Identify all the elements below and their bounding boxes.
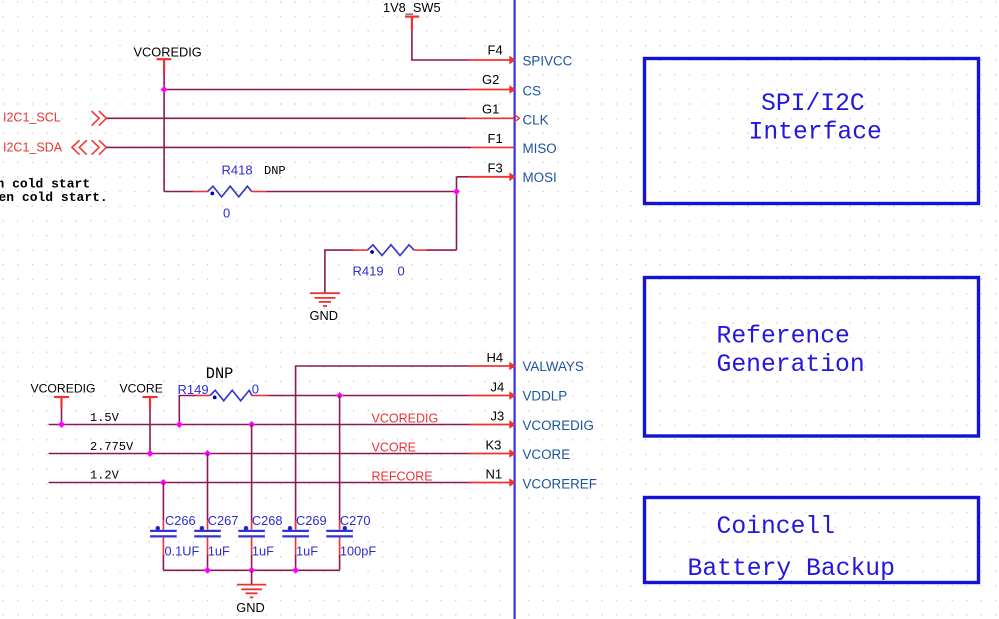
svg-text:VCOREDIG: VCOREDIG [134, 45, 202, 60]
junction bus / C269 [292, 567, 299, 574]
pin F1 red stub [471, 146, 514, 148]
wire ground bus [163, 569, 339, 571]
wire G2 row [164, 89, 468, 91]
svg-text:VDDLP: VDDLP [523, 389, 568, 404]
svg-text:VCORE: VCORE [372, 441, 416, 455]
svg-text:1uF: 1uF [296, 543, 318, 558]
function box Reference Generation [645, 278, 979, 437]
svg-text:Battery Backup: Battery Backup [688, 555, 895, 583]
junction MOSI node [453, 188, 460, 195]
svg-text:K3: K3 [486, 437, 502, 452]
pin J3 red stub [469, 424, 511, 426]
resistor R149 right pin [252, 395, 268, 397]
capacitor C266 [150, 520, 177, 555]
svg-text:R418: R418 [222, 163, 253, 178]
svg-text:C269: C269 [296, 513, 327, 528]
svg-text:C266: C266 [165, 513, 196, 528]
ground symbol GND (bottom) [237, 585, 266, 598]
wire R419 left to GND corner [325, 250, 353, 292]
wire G1 row [106, 117, 466, 119]
svg-text:GND: GND [236, 600, 264, 615]
svg-text:F1: F1 [488, 131, 503, 146]
pin K3 red stub [469, 453, 511, 455]
junction K3 / C267 [204, 450, 211, 457]
wire F3 row [457, 176, 469, 178]
svg-text:VCOREDIG: VCOREDIG [31, 382, 96, 396]
pin F3 arrow [509, 173, 516, 182]
junction J3 / R149 [176, 421, 183, 428]
wire C266 top lead [162, 483, 164, 521]
svg-text:1V8_SW5: 1V8_SW5 [383, 0, 441, 15]
svg-text:MOSI: MOSI [523, 170, 557, 185]
wire R418 to MOSI node [266, 191, 456, 193]
wire R419 to MOSI vertical [427, 249, 457, 251]
function box Coincell Battery Backup [645, 498, 979, 583]
capacitor C269 [282, 520, 309, 555]
svg-text:N1: N1 [486, 466, 503, 481]
resistor R418 body [208, 186, 252, 197]
svg-text:I2C1_SDA: I2C1_SDA [3, 140, 63, 154]
junction N1 / C266 [160, 479, 167, 486]
function box SPI/I2C Interface [645, 59, 979, 204]
pin F4 arrow [509, 56, 516, 65]
ground symbol GND (R419) [310, 293, 340, 306]
wire J4 row [268, 395, 469, 397]
svg-text:VALWAYS: VALWAYS [523, 359, 584, 374]
svg-text:2.775V: 2.775V [90, 440, 134, 454]
pin G2 red stub [468, 89, 511, 91]
svg-text:GND: GND [310, 308, 338, 323]
capacitor C267 [194, 520, 221, 555]
svg-text:Reference: Reference [717, 322, 850, 350]
wire C268 top lead [251, 425, 253, 521]
svg-text:J4: J4 [491, 379, 505, 394]
resistor R418 right pin [252, 191, 266, 193]
wire C270 top lead [339, 396, 341, 521]
svg-text:en cold start.: en cold start. [0, 190, 108, 205]
svg-text:R419: R419 [353, 264, 384, 279]
svg-text:1uF: 1uF [208, 543, 230, 558]
resistor R419 left pin [353, 249, 367, 251]
svg-text:1uF: 1uF [252, 543, 274, 558]
wire C268 bottom lead [251, 555, 253, 570]
resistor R149 pin1 dot [213, 396, 217, 400]
svg-text:0.1UF: 0.1UF [165, 543, 200, 558]
pin J3 arrow [509, 420, 516, 429]
power symbol 1V8_SW5 [405, 17, 419, 31]
svg-text:VCOREREF: VCOREREF [523, 477, 597, 492]
svg-text:I2C1_SCL: I2C1_SCL [3, 110, 61, 124]
resistor R419 body [367, 245, 414, 256]
svg-text:G1: G1 [482, 102, 499, 117]
svg-text:C268: C268 [252, 513, 283, 528]
sheet boundary vertical bus line [513, 0, 515, 619]
off-page connector chevrons I2C1_SDA [72, 140, 106, 155]
pin G2 arrow [509, 85, 516, 94]
resistor R419 pin1 dot [370, 250, 374, 254]
svg-text:VCORE: VCORE [120, 382, 163, 396]
svg-text:F3: F3 [488, 160, 503, 175]
svg-text:REFCORE: REFCORE [372, 470, 433, 484]
comment text cold start [0, 177, 108, 206]
wire H4 row [296, 366, 469, 530]
wire VCOREDIG corner to R418 [164, 191, 193, 193]
pin J4 arrow [509, 391, 516, 400]
svg-text:C270: C270 [340, 513, 371, 528]
resistor R149 left pin [196, 395, 210, 397]
svg-text:CS: CS [523, 83, 542, 98]
power symbol VCOREDIG (top) [157, 59, 172, 74]
wire C270 bottom lead [339, 555, 341, 570]
wire GND stem (bottom) [251, 570, 253, 584]
junction at VCOREDIG / CS wire [161, 86, 168, 93]
pin H4 arrow [509, 362, 516, 371]
wire VCORE power to K3 row [149, 408, 151, 454]
pin G1 red stub [466, 117, 514, 119]
svg-text:MISO: MISO [523, 141, 557, 156]
svg-text:100pF: 100pF [340, 543, 376, 558]
power symbol VCORE (bottom) [143, 397, 158, 408]
pin N1 arrow [509, 478, 516, 487]
svg-text:1.5V: 1.5V [90, 411, 120, 425]
svg-text:Generation: Generation [717, 351, 865, 379]
wire C267 bottom lead [207, 555, 209, 570]
wire C266 bottom lead [162, 555, 164, 570]
svg-text:G2: G2 [482, 72, 499, 87]
power symbol VCOREDIG (bottom) [54, 397, 69, 408]
svg-text:0: 0 [398, 264, 405, 279]
svg-text:SPI/I2C: SPI/I2C [761, 90, 865, 118]
svg-text:SPIVCC: SPIVCC [523, 53, 573, 68]
svg-text:1.2V: 1.2V [90, 469, 120, 483]
wire R149 left corner to J3 row [179, 396, 196, 425]
junction bus / C267 [204, 567, 211, 574]
pin G1 open arrow [513, 114, 519, 122]
pin F3 red stub [468, 176, 511, 178]
wire VCOREDIG power to J3 row [61, 408, 63, 425]
capacitor C268 [238, 520, 265, 555]
svg-text:Coincell: Coincell [717, 513, 836, 541]
svg-text:VCORE: VCORE [523, 447, 571, 462]
wire 1V8_SW5 to pin F4 [412, 30, 468, 60]
resistor R418 pin1 dot [210, 192, 214, 196]
wire N1 row [49, 482, 469, 484]
junction J3 / C268 [248, 421, 255, 428]
svg-text:VCOREDIG: VCOREDIG [372, 412, 439, 426]
pin K3 arrow [509, 449, 516, 458]
svg-text:J3: J3 [491, 408, 505, 423]
svg-text:0: 0 [223, 205, 230, 220]
wire C267 top lead [207, 454, 209, 521]
svg-text:H4: H4 [487, 350, 504, 365]
wire C269 bottom lead [295, 555, 297, 570]
resistor R418 left pin [193, 191, 207, 193]
svg-text:CLK: CLK [523, 112, 549, 127]
capacitor C270 [326, 520, 353, 555]
wire MOSI vertical [456, 177, 458, 250]
svg-text:0: 0 [252, 381, 259, 396]
pin J4 red stub [469, 395, 511, 397]
junction bus / C268 [248, 567, 255, 574]
svg-text:DNP: DNP [264, 164, 286, 178]
svg-text:F4: F4 [488, 43, 503, 58]
pin N1 red stub [469, 482, 511, 484]
junction J3 / VCOREDIG power [58, 421, 65, 428]
resistor R419 right pin [414, 249, 427, 251]
pin H4 red stub [469, 365, 511, 367]
junction J4 / C270 [336, 392, 343, 399]
wire K3 row [49, 453, 469, 455]
svg-text:DNP: DNP [206, 365, 234, 383]
resistor R149 body [210, 390, 252, 401]
wire F1 row [106, 146, 471, 148]
svg-text:VCOREDIG: VCOREDIG [523, 418, 594, 433]
wire VCOREDIG vertical [163, 74, 165, 192]
off-page connector chevrons I2C1_SCL [92, 111, 107, 126]
junction K3 / VCORE power [147, 450, 154, 457]
pin F4 red stub [468, 59, 511, 61]
svg-text:C267: C267 [208, 513, 239, 528]
wire J3 row [49, 424, 469, 426]
svg-text:Interface: Interface [749, 119, 882, 147]
